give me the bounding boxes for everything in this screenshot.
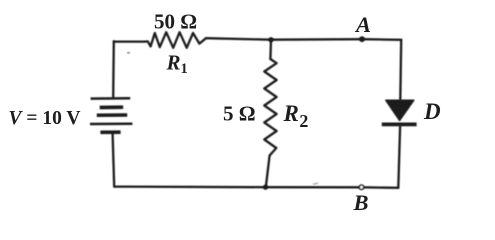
wire right vertical lower [398,127,400,188]
diode D cathode bar [382,123,417,127]
node A dot [359,36,365,42]
wire R2 branch bottom stub [266,156,270,188]
diode D triangle [386,100,414,120]
wire top right segment to node A and corner [271,38,401,41]
wire right vertical upper [399,40,402,100]
junction dot R2 bottom [263,185,268,190]
svg-text:R2: R2 [283,101,309,131]
svg-text:D: D [423,99,441,124]
resistor R1 [145,32,207,48]
svg-text:50 Ω: 50 Ω [154,10,197,34]
wire R2 branch top stub [269,40,272,59]
svg-text:B: B [353,190,369,215]
voltage source V battery plates [90,98,132,132]
svg-text:V = 10 V: V = 10 V [9,108,81,129]
wire left vertical upper [112,41,115,97]
scan speck near top-left corner [127,52,130,54]
resistor R2 [264,59,276,156]
svg-text:R1: R1 [166,50,188,77]
wire left vertical lower [113,134,115,187]
svg-text:A: A [354,12,371,37]
junction dot R2 top [268,37,273,42]
wire bottom segment [114,187,398,188]
wire top-left segment [114,40,145,42]
node B open circle [359,185,363,189]
svg-text:5 Ω: 5 Ω [223,102,256,126]
wire top middle segment [206,38,271,40]
scan speck on bottom wire [313,183,318,184]
